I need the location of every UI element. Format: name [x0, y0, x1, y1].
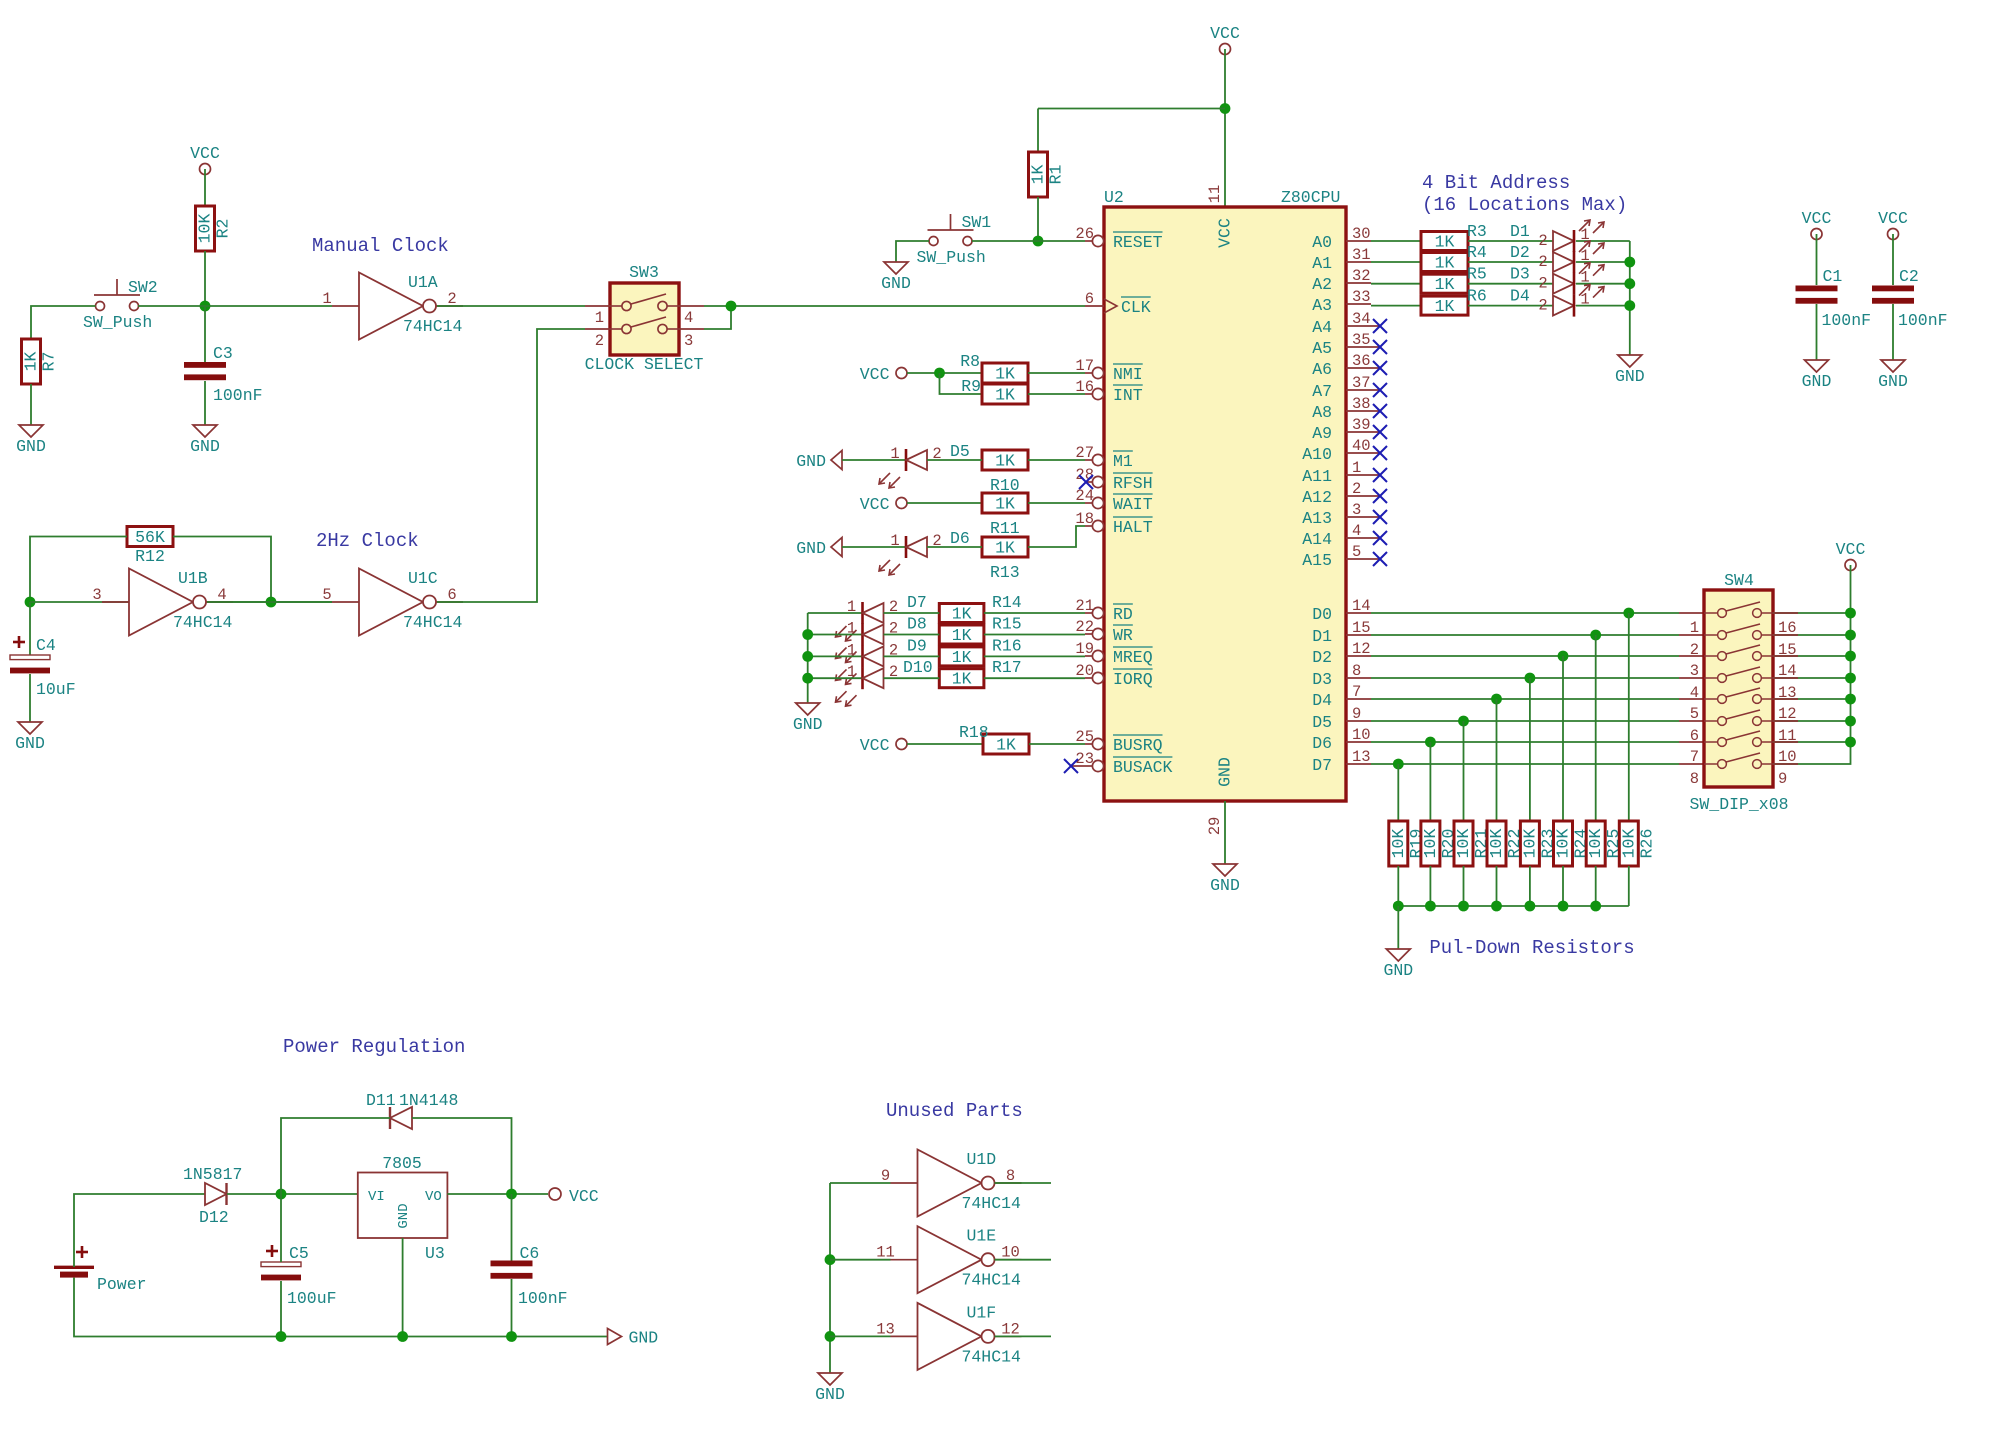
svg-text:10K: 10K — [1520, 829, 1539, 859]
svg-text:D5: D5 — [950, 442, 970, 461]
svg-text:Z80CPU: Z80CPU — [1281, 188, 1340, 207]
junction D3/pulldown — [1525, 673, 1536, 684]
svg-text:R12: R12 — [135, 547, 165, 566]
svg-text:GND: GND — [881, 274, 911, 293]
svg-text:4: 4 — [1352, 522, 1361, 540]
svg-text:R1: R1 — [1047, 165, 1066, 185]
svg-text:VCC: VCC — [1210, 24, 1240, 43]
svg-text:74HC14: 74HC14 — [173, 613, 233, 632]
svg-text:VO: VO — [425, 1189, 442, 1205]
junction D4/pulldown — [1491, 694, 1502, 705]
svg-text:6: 6 — [1690, 727, 1699, 745]
resistor R19 — [1389, 821, 1426, 866]
junction node SW2/R2/C3/U1A — [200, 301, 211, 312]
svg-text:34: 34 — [1352, 310, 1371, 328]
wire D12 to VI — [227, 1193, 358, 1195]
pin 3 A13 — [1302, 501, 1379, 528]
wire to U1C — [271, 601, 332, 603]
svg-text:M1: M1 — [1113, 452, 1133, 471]
pin 17 NMI — [1075, 357, 1142, 384]
svg-text:1: 1 — [847, 598, 856, 616]
junction LED bus — [1624, 257, 1635, 268]
svg-text:32: 32 — [1352, 267, 1371, 285]
wire to U1D — [830, 1182, 891, 1184]
wire U1D out — [995, 1182, 1052, 1184]
ground (unused) — [815, 1373, 845, 1404]
junction rail C5 — [276, 1331, 287, 1342]
junction VCC bus — [1845, 694, 1856, 705]
wire node to U1B — [30, 601, 332, 603]
svg-text:A11: A11 — [1302, 467, 1332, 486]
wire R5 to D3 — [1468, 283, 1553, 285]
capacitor C5 (polarized) — [261, 1245, 301, 1280]
svg-text:CLK: CLK — [1121, 298, 1151, 317]
svg-text:38: 38 — [1352, 395, 1371, 413]
svg-text:GND: GND — [796, 539, 826, 558]
switch SW1 — [917, 213, 992, 267]
svg-text:30: 30 — [1352, 225, 1371, 243]
wire to U1E — [830, 1259, 891, 1261]
svg-text:IORQ: IORQ — [1113, 670, 1153, 689]
wire R18 to BUSRQ — [1029, 743, 1085, 745]
no-connect A5 — [1373, 340, 1387, 354]
svg-text:13: 13 — [876, 1320, 895, 1338]
svg-text:1K: 1K — [952, 648, 972, 667]
LED D9 — [836, 641, 899, 684]
pin 22 WR — [1075, 618, 1133, 645]
junction GND bus left — [1393, 901, 1404, 912]
no-connect A14 — [1373, 531, 1387, 545]
power VCC (Z80 pin11) — [1210, 24, 1240, 55]
svg-text:R4: R4 — [1467, 243, 1487, 262]
pin 16 INT — [1075, 378, 1142, 405]
svg-text:GND: GND — [190, 437, 220, 456]
svg-text:1K: 1K — [996, 736, 1016, 755]
no-connect A12 — [1373, 489, 1387, 503]
wire SW1 to RESET — [972, 240, 1085, 242]
pin 13 D7 — [1312, 748, 1371, 775]
wire to U1F — [830, 1335, 891, 1337]
svg-text:U1E: U1E — [967, 1227, 997, 1246]
junction GND bus — [1590, 901, 1601, 912]
svg-text:9: 9 — [881, 1167, 890, 1185]
svg-text:SW1: SW1 — [962, 213, 992, 232]
ground (C1) — [1802, 360, 1832, 391]
wire node to C4 — [29, 602, 31, 655]
svg-text:1K: 1K — [952, 670, 972, 689]
wire node to C5 — [280, 1194, 282, 1262]
resistor R12 — [127, 527, 173, 548]
no-connect RFSH — [1079, 475, 1093, 489]
svg-text:A9: A9 — [1312, 424, 1332, 443]
svg-text:VCC: VCC — [860, 365, 890, 384]
svg-text:D3: D3 — [1312, 670, 1332, 689]
resistor R24 — [1554, 821, 1591, 866]
wire R12 right — [173, 537, 271, 603]
svg-text:1K: 1K — [1435, 297, 1455, 316]
junction VCC bus — [1845, 651, 1856, 662]
resistor R15 — [939, 625, 984, 645]
svg-text:GND: GND — [1802, 372, 1832, 391]
wire junction to R26 — [1628, 613, 1630, 821]
svg-text:HALT: HALT — [1113, 518, 1153, 537]
svg-text:A7: A7 — [1312, 382, 1332, 401]
pin 10 D6 — [1312, 726, 1371, 753]
wire junction to R25 — [1595, 635, 1597, 821]
LED D6 — [879, 532, 942, 575]
svg-text:5: 5 — [322, 586, 331, 604]
wire D5 to SW4 — [1371, 720, 1679, 722]
wire A1 to R4 — [1371, 261, 1421, 263]
svg-text:1: 1 — [1352, 459, 1361, 477]
wire Z80 pin29 to GND — [1224, 801, 1226, 864]
svg-text:D8: D8 — [907, 615, 927, 634]
pin 35 A5 — [1312, 331, 1379, 358]
ground (D5) — [796, 451, 842, 472]
svg-text:2: 2 — [1538, 275, 1547, 293]
wire R10 to M1 — [1028, 459, 1085, 461]
resistor R18 — [983, 734, 1029, 755]
junction VCC bus — [1845, 737, 1856, 748]
svg-text:19: 19 — [1075, 640, 1094, 658]
pin 12 D2 — [1312, 640, 1371, 667]
junction unused bus U1F — [825, 1331, 836, 1342]
wire U3 GND to rail — [402, 1238, 404, 1337]
wire U1E out — [995, 1259, 1052, 1261]
svg-text:RD: RD — [1113, 605, 1133, 624]
wire bus to D10 — [808, 677, 863, 679]
wire R8 to NMI — [1028, 372, 1085, 374]
power VCC (R11) — [860, 495, 907, 514]
wire R24 to GND bus — [1562, 866, 1564, 906]
resistor R21 — [1454, 821, 1491, 866]
svg-text:INT: INT — [1113, 386, 1143, 405]
power VCC (C2) — [1878, 209, 1908, 240]
svg-text:2: 2 — [1352, 480, 1361, 498]
svg-text:(16 Locations Max): (16 Locations Max) — [1422, 194, 1627, 216]
pin 27 M1 — [1075, 444, 1133, 471]
svg-text:26: 26 — [1075, 225, 1094, 243]
svg-text:1K: 1K — [952, 626, 972, 645]
svg-text:1K: 1K — [995, 365, 1015, 384]
ground (C2) — [1878, 360, 1908, 391]
svg-text:3: 3 — [1690, 662, 1699, 680]
no-connect A8 — [1373, 404, 1387, 418]
svg-text:U1D: U1D — [967, 1150, 997, 1169]
capacitor C4 plates — [10, 655, 50, 673]
resistor R5 — [1421, 274, 1468, 294]
wire R4 to D2 — [1468, 261, 1553, 263]
svg-text:D9: D9 — [907, 636, 927, 655]
svg-text:2: 2 — [1690, 641, 1699, 659]
svg-text:A15: A15 — [1302, 551, 1332, 570]
pin 40 A10 — [1302, 437, 1379, 464]
svg-text:15: 15 — [1352, 619, 1371, 637]
svg-text:Power: Power — [97, 1275, 147, 1294]
svg-text:5: 5 — [1352, 543, 1361, 561]
svg-text:VCC: VCC — [1216, 218, 1235, 248]
pin 9 D5 — [1312, 705, 1371, 732]
svg-text:R6: R6 — [1467, 287, 1487, 306]
wire A2 to R5 — [1371, 283, 1421, 285]
wire junction to R23 — [1529, 678, 1531, 821]
svg-text:1N4148: 1N4148 — [399, 1091, 458, 1110]
svg-text:D7: D7 — [1312, 756, 1332, 775]
svg-text:R5: R5 — [1467, 265, 1487, 284]
wire node to C6 — [511, 1194, 513, 1261]
resistor R25 — [1586, 821, 1623, 866]
svg-text:R13: R13 — [990, 563, 1020, 582]
wire D0 to SW4 — [1371, 612, 1679, 614]
wire down to R9 — [940, 373, 983, 394]
pin 4 A14 — [1302, 522, 1379, 549]
power VCC output — [549, 1187, 599, 1206]
wire SW1 to GND — [896, 241, 929, 262]
pin 37 A7 — [1312, 374, 1379, 401]
wire R23 to GND bus — [1529, 866, 1531, 906]
pin 15 D1 — [1312, 619, 1371, 646]
svg-text:D4: D4 — [1510, 287, 1530, 306]
power VCC (SW4) — [1836, 540, 1866, 571]
stub BUSACK — [1071, 765, 1085, 767]
wire junction to R19 — [1397, 764, 1399, 821]
svg-text:R15: R15 — [992, 615, 1022, 634]
svg-text:74HC14: 74HC14 — [962, 1271, 1022, 1290]
svg-text:GND: GND — [793, 715, 823, 734]
wire pulldown GND bus — [1398, 905, 1629, 907]
svg-text:1K: 1K — [22, 352, 41, 372]
svg-text:SW_Push: SW_Push — [917, 248, 986, 267]
svg-text:C4: C4 — [36, 636, 56, 655]
resistor R7 — [22, 339, 59, 384]
resistor R17 — [939, 669, 984, 689]
junction GND bus — [1491, 901, 1502, 912]
wire R16 to Z80 — [984, 655, 1085, 657]
diode D11 1N4148 — [366, 1091, 458, 1129]
svg-text:R26: R26 — [1637, 829, 1656, 859]
wire D4 to SW4 — [1371, 698, 1679, 700]
svg-text:RFSH: RFSH — [1113, 474, 1153, 493]
junction GND bus — [1425, 901, 1436, 912]
svg-text:1: 1 — [595, 309, 604, 327]
svg-text:1K: 1K — [1435, 233, 1455, 252]
LED D10 — [836, 663, 899, 706]
junction LED bus — [1624, 278, 1635, 289]
junction D5/pulldown — [1458, 716, 1469, 727]
wire C5 to rail — [280, 1281, 282, 1337]
svg-text:R18: R18 — [959, 723, 989, 742]
svg-text:R9: R9 — [961, 377, 981, 396]
svg-text:GND: GND — [16, 437, 46, 456]
svg-text:D4: D4 — [1312, 691, 1332, 710]
svg-text:1K: 1K — [995, 452, 1015, 471]
junction VI node — [276, 1189, 287, 1200]
svg-text:10K: 10K — [1487, 829, 1506, 859]
wire U1F out — [995, 1335, 1052, 1337]
svg-text:1K: 1K — [1435, 275, 1455, 294]
svg-text:U1B: U1B — [178, 569, 208, 588]
wire battery- to rail — [74, 1278, 281, 1337]
svg-text:D3: D3 — [1510, 265, 1530, 284]
svg-text:BUSACK: BUSACK — [1113, 758, 1173, 777]
resistor R8 — [982, 363, 1028, 384]
ground rail arrow GND — [608, 1329, 659, 1348]
resistor R1 — [1029, 152, 1066, 197]
svg-text:RESET: RESET — [1113, 233, 1163, 252]
wire R17 to Z80 — [984, 677, 1085, 679]
svg-text:7: 7 — [1352, 683, 1361, 701]
resistor R3 — [1421, 232, 1468, 252]
wire D10 to R17 — [884, 677, 940, 679]
svg-text:A12: A12 — [1302, 488, 1332, 507]
svg-text:3: 3 — [92, 586, 101, 604]
pin 26 RESET — [1075, 225, 1162, 252]
ground (pulldowns) — [1383, 949, 1413, 980]
svg-text:3: 3 — [684, 332, 693, 350]
junction rail U3 — [397, 1331, 408, 1342]
svg-text:74HC14: 74HC14 — [403, 613, 463, 632]
wire C4 to GND — [29, 674, 31, 722]
svg-text:39: 39 — [1352, 416, 1371, 434]
svg-text:100nF: 100nF — [518, 1289, 568, 1308]
resistor R16 — [939, 647, 984, 667]
resistor R4 — [1421, 253, 1468, 273]
svg-text:1: 1 — [847, 663, 856, 681]
wire junction to R24 — [1562, 656, 1564, 821]
svg-text:A3: A3 — [1312, 296, 1332, 315]
svg-text:VCC: VCC — [569, 1187, 599, 1206]
inverter U1A 74HC14 — [322, 273, 463, 340]
pin 14 D0 — [1312, 597, 1371, 624]
svg-text:1: 1 — [890, 532, 899, 550]
svg-text:D1: D1 — [1510, 222, 1530, 241]
junction VCC bus — [1845, 716, 1856, 727]
LED D5 — [879, 445, 942, 488]
wire VCC to R2 — [204, 169, 206, 206]
svg-text:1: 1 — [847, 620, 856, 638]
svg-text:A6: A6 — [1312, 360, 1332, 379]
junction LED bus — [802, 651, 813, 662]
svg-text:A2: A2 — [1312, 275, 1332, 294]
svg-text:U1C: U1C — [408, 569, 438, 588]
junction LED bus — [802, 673, 813, 684]
svg-text:74HC14: 74HC14 — [962, 1347, 1022, 1366]
diode D12 1N5817 — [183, 1165, 242, 1227]
wire unused gnd bus — [829, 1183, 831, 1373]
no-connect A4 — [1373, 319, 1387, 333]
wire A0 to R3 — [1371, 240, 1421, 242]
wire bus to D8 — [808, 634, 863, 636]
svg-text:D12: D12 — [199, 1208, 229, 1227]
wire D2 to bus — [1576, 261, 1630, 263]
svg-text:1K: 1K — [995, 539, 1015, 558]
wire U1A out to SW3 — [437, 305, 585, 307]
svg-text:R17: R17 — [992, 658, 1022, 677]
wire VCC to R11 — [907, 502, 982, 504]
wire D11 to VO node — [412, 1118, 512, 1194]
junction GND bus — [1558, 901, 1569, 912]
junction rail C6 — [506, 1331, 517, 1342]
wire junction to R20 — [1429, 742, 1431, 821]
svg-text:VCC: VCC — [860, 495, 890, 514]
svg-text:10: 10 — [1352, 726, 1371, 744]
svg-text:8: 8 — [1352, 662, 1361, 680]
svg-text:D6: D6 — [950, 529, 970, 548]
wire SW3 pin4 to Z80 CLK — [704, 305, 1085, 307]
svg-text:3: 3 — [1352, 501, 1361, 519]
svg-text:U1A: U1A — [408, 273, 438, 292]
svg-text:1K: 1K — [952, 605, 972, 624]
svg-text:33: 33 — [1352, 288, 1371, 306]
wire SW2 to R7 — [31, 306, 96, 339]
svg-text:100uF: 100uF — [287, 1289, 337, 1308]
wire down to R1 — [1037, 109, 1039, 153]
svg-text:GND: GND — [1615, 367, 1645, 386]
wire junction to R22 — [1496, 699, 1498, 821]
no-connect A15 — [1373, 552, 1387, 566]
ground (Z80) — [1210, 864, 1240, 895]
power VCC (R8/R9) — [860, 365, 907, 384]
svg-text:R14: R14 — [992, 593, 1022, 612]
wire U1C out to SW3 pin2 — [437, 329, 585, 602]
svg-text:10K: 10K — [196, 214, 215, 244]
wire D7 to SW4 — [1371, 763, 1679, 765]
svg-text:1: 1 — [322, 290, 331, 308]
wire SW4 pin to VCC bus — [1773, 741, 1851, 743]
wire to R1 top — [1038, 108, 1225, 110]
svg-text:D10: D10 — [903, 658, 933, 677]
wire VI node to D11 — [281, 1118, 390, 1194]
no-connect A13 — [1373, 510, 1387, 524]
wire R20 to GND bus — [1429, 866, 1431, 906]
svg-text:C5: C5 — [289, 1244, 309, 1263]
svg-text:1: 1 — [1690, 619, 1699, 637]
pin 33 A3 — [1312, 288, 1371, 315]
switch SW2 — [83, 278, 158, 332]
wire ground rail — [281, 1336, 608, 1338]
wire bus to GND — [1397, 906, 1399, 949]
svg-text:12: 12 — [1352, 640, 1371, 658]
capacitor C4 (polarized) — [10, 636, 50, 673]
resistor R14 — [939, 604, 984, 624]
junction VCC/R1 — [1220, 103, 1231, 114]
capacitor C2 — [1872, 286, 1914, 304]
pin 2 A12 — [1302, 480, 1379, 507]
wire D5 to R10 — [927, 459, 982, 461]
svg-text:VCC: VCC — [190, 144, 220, 163]
svg-text:R8: R8 — [960, 352, 980, 371]
resistor R20 — [1421, 821, 1458, 866]
battery BT Power — [54, 1246, 147, 1294]
pin 5 A15 — [1302, 543, 1379, 570]
inverter U1D 74HC14 — [881, 1150, 1022, 1217]
junction GND bus — [1458, 901, 1469, 912]
wire R26 to GND bus — [1628, 866, 1630, 906]
IC U3 7805 body — [358, 1154, 448, 1263]
pin 25 BUSRQ — [1075, 728, 1162, 755]
ground (LED bus) — [793, 703, 823, 734]
svg-text:A1: A1 — [1312, 254, 1332, 273]
svg-text:D7: D7 — [907, 593, 927, 612]
svg-text:A0: A0 — [1312, 233, 1332, 252]
no-connect A11 — [1373, 468, 1387, 482]
ground (D6) — [796, 538, 842, 559]
wire D7 to R14 — [884, 612, 940, 614]
wire VO to VCC — [447, 1193, 548, 1195]
wire VCC to C2 — [1892, 234, 1894, 285]
svg-text:D1: D1 — [1312, 627, 1332, 646]
wire node to C3 — [204, 306, 206, 362]
